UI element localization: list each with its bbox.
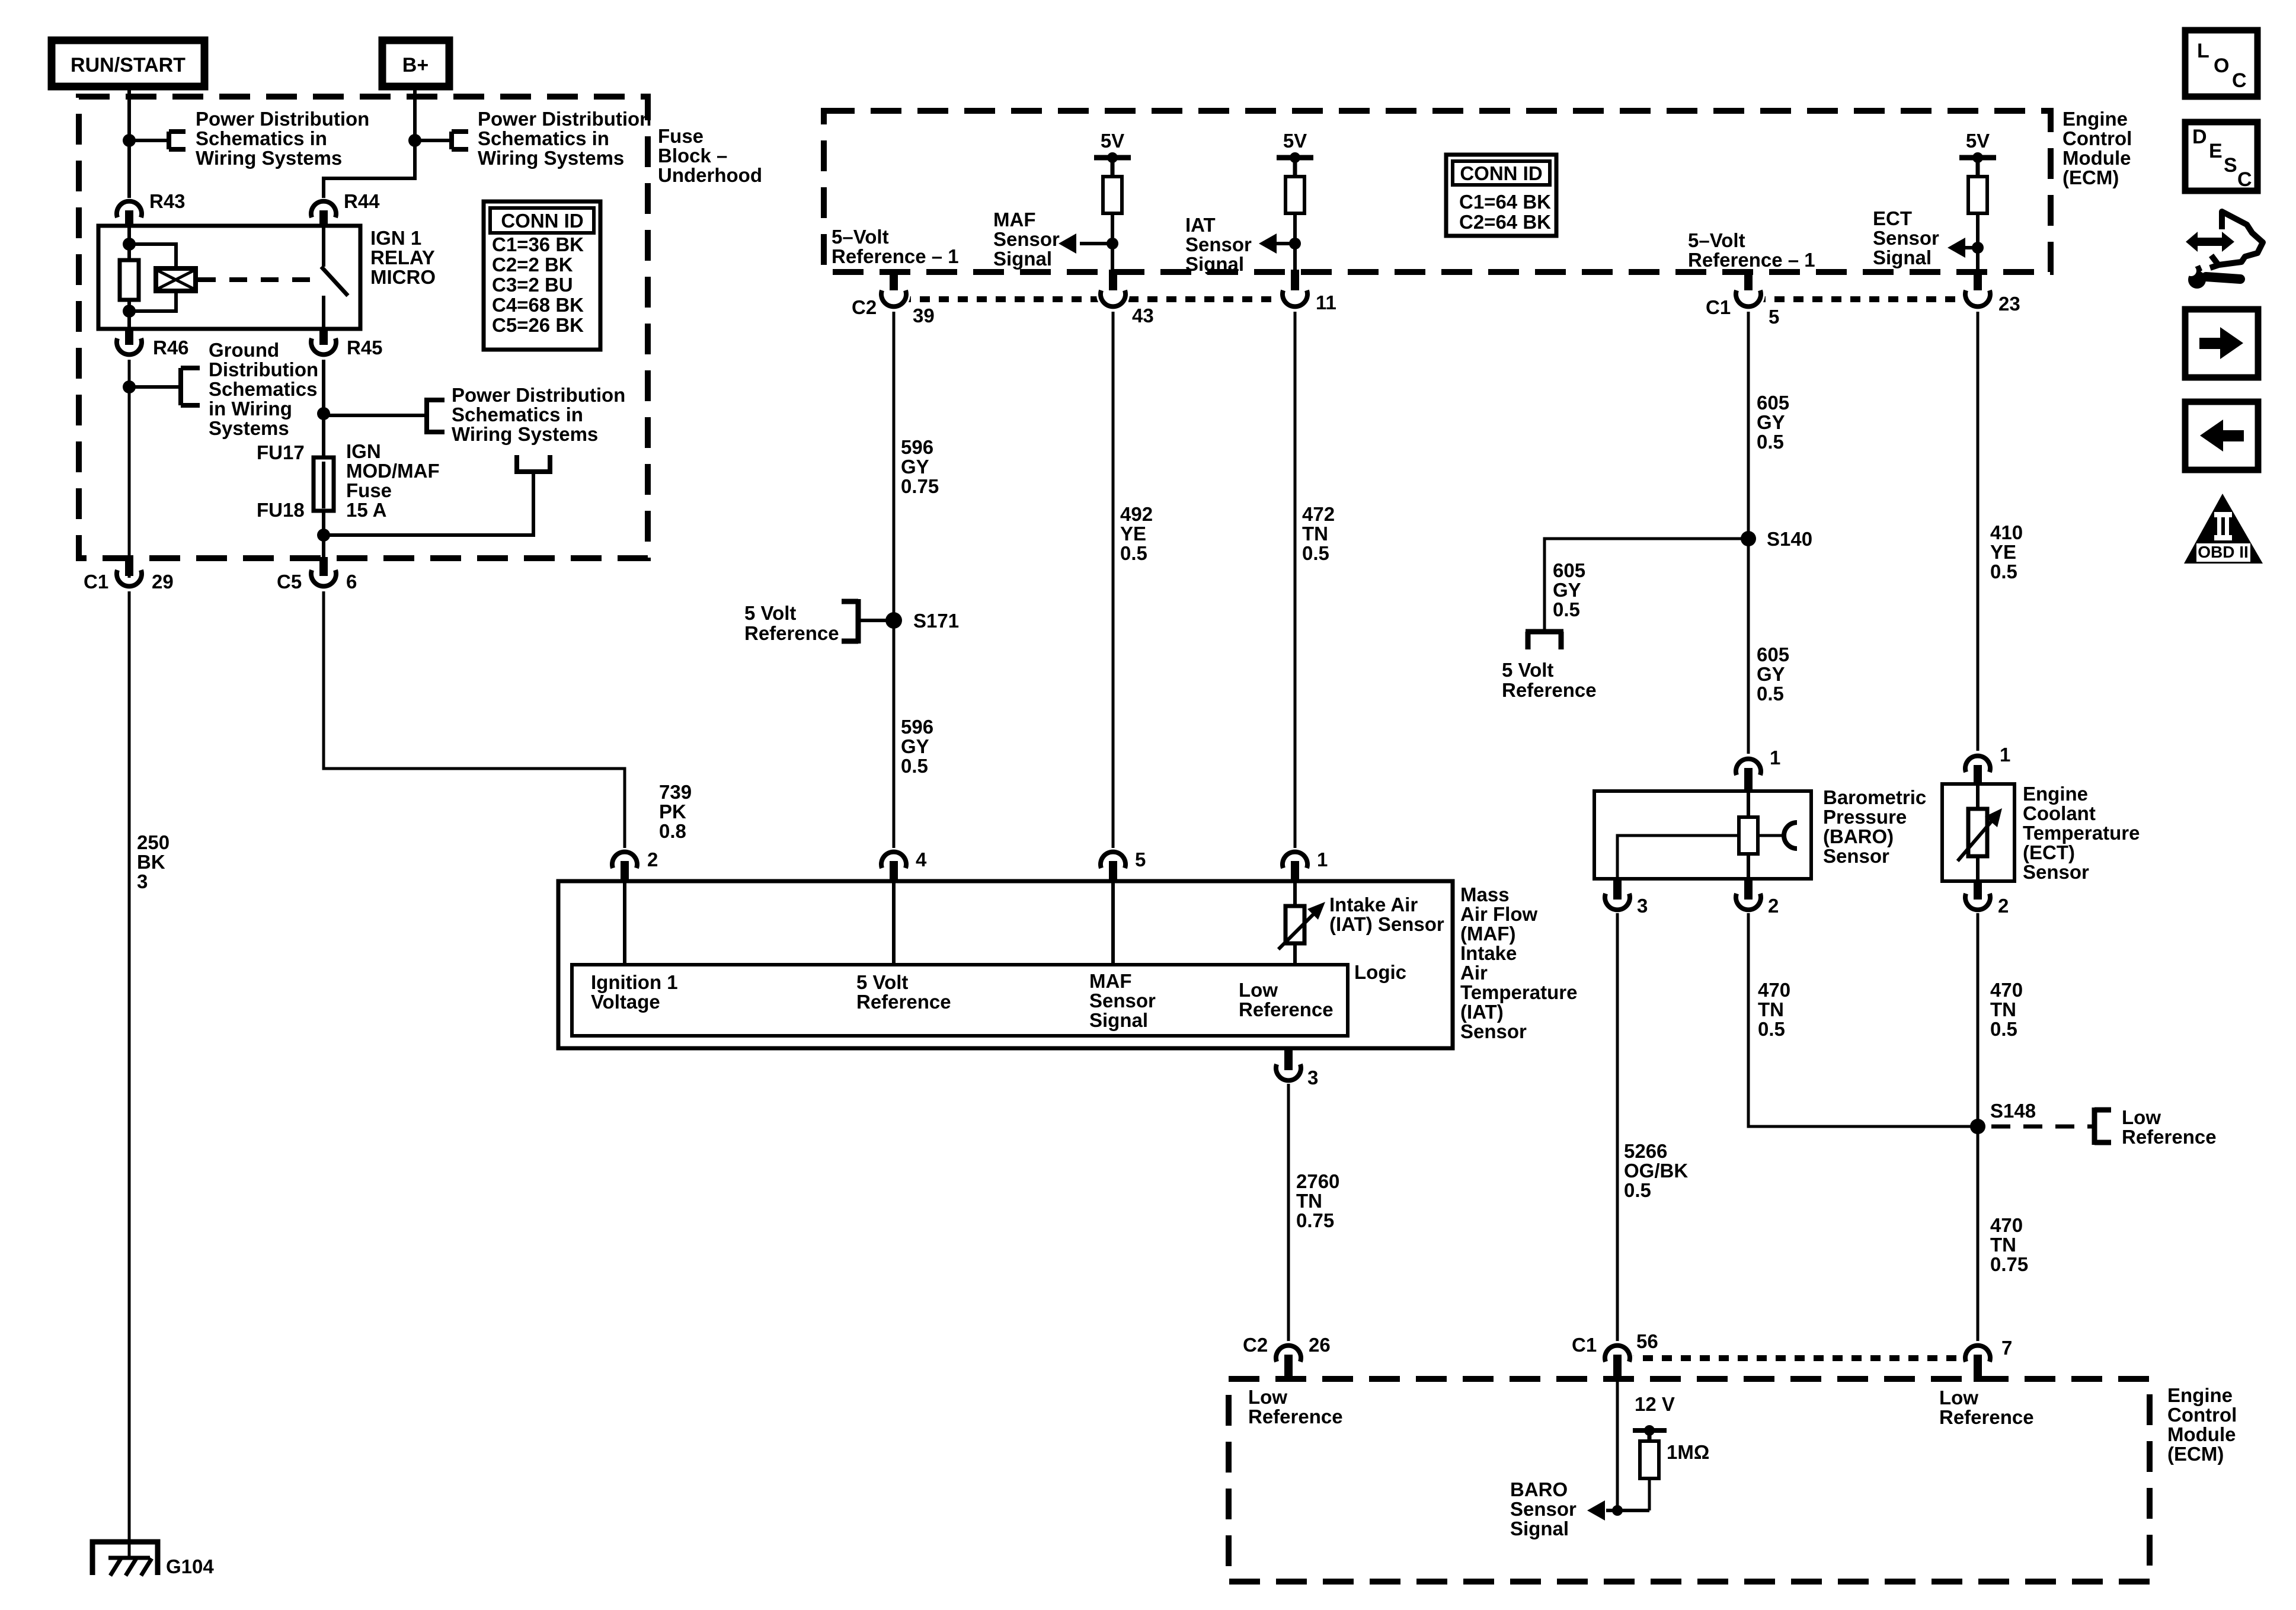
svg-text:43: 43 bbox=[1132, 305, 1154, 327]
svg-text:GY: GY bbox=[901, 735, 929, 757]
svg-text:Block –: Block – bbox=[658, 145, 727, 167]
svg-text:G104: G104 bbox=[166, 1555, 214, 1577]
wire 470 TN 0.5 ECT pin 2 to S148 bbox=[1978, 913, 2023, 1126]
svg-text:BK: BK bbox=[137, 851, 165, 873]
svg-text:(BARO): (BARO) bbox=[1823, 825, 1894, 847]
svg-text:C2: C2 bbox=[1243, 1334, 1268, 1356]
svg-text:Control: Control bbox=[2062, 127, 2132, 149]
svg-text:0.5: 0.5 bbox=[1120, 542, 1147, 564]
svg-text:MOD/MAF: MOD/MAF bbox=[346, 460, 440, 482]
node junction BARO signal bbox=[1612, 1505, 1623, 1516]
node splice S171 bbox=[885, 610, 959, 632]
svg-text:C5: C5 bbox=[277, 571, 302, 593]
svg-text:Coolant: Coolant bbox=[2023, 802, 2096, 824]
svg-text:1: 1 bbox=[1770, 747, 1780, 769]
svg-text:Ignition 1: Ignition 1 bbox=[591, 971, 678, 993]
relay coil resistor bbox=[120, 226, 139, 329]
icon OBD II bbox=[2184, 494, 2263, 564]
node relay coil bottom bbox=[123, 305, 136, 318]
svg-text:7: 7 bbox=[2001, 1337, 2012, 1359]
svg-text:S148: S148 bbox=[1990, 1100, 2036, 1122]
resistor BARO internal bbox=[1739, 793, 1758, 879]
wire pin5 into logic box bbox=[1111, 883, 1115, 965]
arrow IAT sensor signal bbox=[1259, 233, 1301, 254]
svg-text:5–Volt: 5–Volt bbox=[832, 226, 889, 248]
connector MAF pin 1 bbox=[1283, 849, 1328, 883]
connector MAF pin 4 bbox=[881, 849, 927, 883]
svg-text:S171: S171 bbox=[913, 610, 959, 632]
power symbol 5V ECT bbox=[1959, 130, 1996, 177]
wire to 5 volt reference bracket S171 bbox=[842, 599, 894, 644]
connector MAF pin 2 bbox=[612, 849, 658, 883]
svg-text:Power Distribution: Power Distribution bbox=[478, 108, 651, 130]
svg-text:1: 1 bbox=[1317, 849, 1328, 870]
svg-text:5V: 5V bbox=[1101, 130, 1124, 152]
power symbol 5V IAT bbox=[1277, 130, 1313, 177]
connector R45 bbox=[311, 329, 383, 359]
node relay coil top bbox=[123, 238, 136, 251]
svg-text:5: 5 bbox=[1135, 849, 1146, 870]
svg-text:5V: 5V bbox=[1283, 130, 1307, 152]
node junction B+ bbox=[408, 134, 421, 147]
svg-text:CONN ID: CONN ID bbox=[1460, 162, 1542, 184]
svg-text:12 V: 12 V bbox=[1635, 1393, 1675, 1415]
svg-text:Fuse: Fuse bbox=[658, 125, 703, 147]
svg-text:472: 472 bbox=[1302, 503, 1335, 525]
svg-text:Fuse: Fuse bbox=[346, 479, 392, 501]
svg-text:605: 605 bbox=[1757, 644, 1789, 665]
connector BARO pin 2 bbox=[1736, 879, 1779, 917]
svg-text:Ground: Ground bbox=[209, 339, 279, 361]
icon arrow right bbox=[2185, 309, 2258, 377]
svg-text:Logic: Logic bbox=[1354, 961, 1406, 983]
icon DESC bbox=[2185, 122, 2257, 191]
svg-text:Reference: Reference bbox=[856, 991, 951, 1013]
svg-text:OG/BK: OG/BK bbox=[1624, 1160, 1688, 1182]
svg-text:Mass: Mass bbox=[1460, 884, 1510, 905]
svg-text:MICRO: MICRO bbox=[370, 266, 436, 288]
svg-text:Engine: Engine bbox=[2023, 783, 2088, 805]
svg-text:0.5: 0.5 bbox=[1990, 1018, 2017, 1040]
svg-text:Pressure: Pressure bbox=[1823, 806, 1907, 828]
label 5 volt reference S171 bbox=[744, 602, 839, 644]
wire fuse output to bracket from power distribution bbox=[324, 455, 552, 535]
svg-text:470: 470 bbox=[1990, 979, 2023, 1001]
svg-text:ECT: ECT bbox=[1873, 207, 1912, 229]
relay switch bbox=[321, 226, 348, 329]
svg-text:5 Volt: 5 Volt bbox=[1502, 659, 1553, 681]
node junction R45 power distribution bbox=[317, 407, 330, 420]
connector C1-56 bbox=[1572, 1330, 1658, 1382]
svg-text:596: 596 bbox=[901, 716, 933, 738]
MAF logic box bbox=[572, 961, 1406, 1036]
terminal RUN/START bbox=[52, 40, 204, 87]
svg-text:3: 3 bbox=[1637, 895, 1648, 917]
svg-text:Schematics in: Schematics in bbox=[196, 127, 327, 149]
svg-text:RELAY: RELAY bbox=[370, 247, 435, 268]
wire R46 down to C1-29 bbox=[128, 360, 131, 578]
svg-text:Reference: Reference bbox=[1248, 1406, 1343, 1427]
svg-text:C5=26 BK: C5=26 BK bbox=[492, 314, 584, 336]
ground G104 bbox=[92, 1542, 214, 1577]
svg-text:OBD II: OBD II bbox=[2198, 543, 2249, 561]
label MAF Sensor Signal bbox=[993, 209, 1060, 270]
svg-text:15 A: 15 A bbox=[346, 499, 386, 521]
BARO pressure capsule symbol bbox=[1758, 822, 1797, 849]
svg-text:23: 23 bbox=[1998, 293, 2020, 315]
svg-text:Control: Control bbox=[2167, 1404, 2237, 1426]
svg-text:5 Volt: 5 Volt bbox=[744, 602, 796, 624]
table CONN ID fuse block bbox=[484, 201, 600, 350]
resistor 1M ohm bbox=[1640, 1441, 1709, 1510]
relay solenoid symbol bbox=[156, 268, 196, 291]
svg-text:R46: R46 bbox=[153, 337, 189, 359]
label Low Reference C2-26 bbox=[1248, 1386, 1343, 1427]
svg-text:Temperature: Temperature bbox=[2023, 822, 2140, 844]
thermistor ECT bbox=[1958, 786, 2002, 881]
svg-text:56: 56 bbox=[1636, 1330, 1658, 1352]
label Low Reference S148 bbox=[2122, 1106, 2217, 1148]
svg-text:5V: 5V bbox=[1966, 130, 1990, 152]
connector ECT pin 2 bbox=[1965, 881, 2009, 917]
dashed link S148 to low reference bracket bbox=[1991, 1108, 2111, 1145]
svg-text:Reference: Reference bbox=[2122, 1126, 2217, 1148]
connector 23 bbox=[1965, 270, 2020, 315]
svg-text:(MAF): (MAF) bbox=[1460, 923, 1515, 945]
svg-text:C1: C1 bbox=[1706, 296, 1731, 318]
svg-text:0.5: 0.5 bbox=[901, 755, 928, 777]
connector ECT pin 1 bbox=[1965, 744, 2010, 786]
svg-text:D: D bbox=[2192, 126, 2207, 148]
svg-text:Air: Air bbox=[1460, 962, 1488, 984]
svg-text:C: C bbox=[2232, 69, 2247, 92]
connector C1-5 bbox=[1706, 270, 1779, 328]
svg-text:Reference: Reference bbox=[1502, 679, 1597, 701]
wire 470 TN 0.75 S148 to connector 7 bbox=[1978, 1126, 2028, 1342]
svg-text:FU17: FU17 bbox=[257, 441, 305, 463]
svg-text:2: 2 bbox=[1998, 895, 2009, 917]
wire R45 down to fuse bbox=[322, 360, 325, 457]
svg-text:Engine: Engine bbox=[2167, 1384, 2233, 1406]
label Low Reference cell bbox=[1239, 979, 1334, 1020]
svg-text:S: S bbox=[2224, 154, 2237, 177]
svg-text:RUN/START: RUN/START bbox=[71, 54, 186, 76]
connector R43 bbox=[117, 190, 186, 226]
wire 605 GY 0.5 S140 to BARO pin 1 bbox=[1748, 539, 1789, 754]
svg-text:Reference – 1: Reference – 1 bbox=[1688, 249, 1815, 271]
MAF IAT sensor box bbox=[558, 881, 1453, 1048]
svg-text:3: 3 bbox=[137, 870, 148, 892]
arrow ECT sensor signal bbox=[1948, 238, 1984, 258]
connector R44 bbox=[311, 190, 380, 226]
connector C1-29 bbox=[84, 557, 174, 593]
svg-text:C1: C1 bbox=[84, 571, 108, 593]
svg-text:(ECM): (ECM) bbox=[2167, 1443, 2224, 1465]
label Engine Control Module bottom bbox=[2167, 1384, 2237, 1465]
svg-text:Reference: Reference bbox=[744, 622, 839, 644]
svg-text:Wiring Systems: Wiring Systems bbox=[196, 147, 342, 169]
label ground distribution bbox=[209, 339, 318, 439]
wire 492 YE 0.5 43 to MAF pin 5 bbox=[1113, 312, 1153, 848]
connector R46 bbox=[117, 329, 189, 359]
svg-text:IGN: IGN bbox=[346, 440, 381, 462]
svg-text:C1=64 BK: C1=64 BK bbox=[1459, 191, 1551, 213]
svg-text:Systems: Systems bbox=[209, 417, 289, 439]
svg-text:Signal: Signal bbox=[1089, 1009, 1148, 1031]
ECM top dashed boundary bbox=[824, 111, 2051, 272]
svg-text:in Wiring: in Wiring bbox=[209, 398, 292, 420]
label 5-Volt Reference - 1 left bbox=[832, 226, 959, 267]
svg-text:C3=2 BU: C3=2 BU bbox=[492, 274, 573, 296]
svg-text:GY: GY bbox=[1553, 579, 1581, 601]
node junction fuse output bbox=[317, 529, 330, 542]
svg-text:R43: R43 bbox=[149, 190, 186, 212]
svg-text:R44: R44 bbox=[344, 190, 380, 212]
svg-text:C1=36 BK: C1=36 BK bbox=[492, 233, 584, 255]
svg-text:O: O bbox=[2214, 55, 2229, 77]
wire branch S140 to 5 volt reference bracket bbox=[1526, 539, 1748, 649]
svg-text:Reference: Reference bbox=[1939, 1406, 2034, 1428]
svg-text:Sensor: Sensor bbox=[993, 228, 1060, 250]
power symbol 12 V bbox=[1633, 1393, 1675, 1441]
wire C1-56 to BARO sensor signal arrow bbox=[1587, 1382, 1649, 1521]
node splice S148 bbox=[1970, 1100, 2036, 1134]
resistor ECM ECT pullup bbox=[1968, 177, 1987, 272]
svg-text:5 Volt: 5 Volt bbox=[856, 971, 908, 993]
svg-text:0.75: 0.75 bbox=[1296, 1209, 1334, 1231]
label Low Reference connector 7 bbox=[1939, 1387, 2034, 1428]
table CONN ID ECM bbox=[1446, 155, 1556, 236]
svg-text:0.8: 0.8 bbox=[659, 820, 686, 842]
svg-text:E: E bbox=[2209, 140, 2223, 162]
svg-text:C1: C1 bbox=[1572, 1334, 1597, 1356]
svg-text:6: 6 bbox=[346, 571, 357, 593]
svg-text:MAF: MAF bbox=[993, 209, 1035, 231]
node splice S140 bbox=[1741, 528, 1812, 550]
label MAF Sensor Signal cell bbox=[1089, 970, 1156, 1031]
wire 410 YE 0.5 23 to ECT pin 1 bbox=[1978, 312, 2023, 751]
svg-text:470: 470 bbox=[1758, 979, 1790, 1001]
svg-text:FU18: FU18 bbox=[257, 499, 305, 521]
svg-text:Schematics in: Schematics in bbox=[452, 404, 583, 425]
svg-text:GY: GY bbox=[1757, 411, 1785, 433]
svg-text:IGN 1: IGN 1 bbox=[370, 227, 421, 249]
connector C2-26 bbox=[1243, 1334, 1331, 1382]
label 5-Volt Reference - 1 right bbox=[1688, 229, 1815, 271]
svg-text:Intake: Intake bbox=[1460, 942, 1517, 964]
fuse block dashed boundary bbox=[79, 97, 648, 558]
wire RUN/START to R43 bbox=[127, 87, 131, 198]
svg-text:(IAT): (IAT) bbox=[1460, 1001, 1504, 1023]
wire 5266 OG/BK 0.5 bbox=[1617, 913, 1688, 1342]
svg-text:Distribution: Distribution bbox=[209, 359, 318, 380]
svg-text:MAF: MAF bbox=[1089, 970, 1131, 992]
svg-text:BARO: BARO bbox=[1510, 1478, 1568, 1500]
wire connector row dotted line bottom bbox=[1624, 1355, 1980, 1361]
svg-text:Low: Low bbox=[2122, 1106, 2161, 1128]
ECM bottom dashed boundary bbox=[1229, 1379, 2150, 1582]
label power distribution 3 bbox=[452, 384, 625, 445]
svg-text:Wiring Systems: Wiring Systems bbox=[452, 423, 598, 445]
svg-text:Voltage: Voltage bbox=[591, 991, 660, 1013]
svg-text:CONN ID: CONN ID bbox=[501, 210, 583, 232]
svg-text:C2=64 BK: C2=64 BK bbox=[1459, 211, 1551, 233]
label ECT Sensor Signal bbox=[1873, 207, 1939, 268]
svg-text:(ECT): (ECT) bbox=[2023, 841, 2075, 863]
svg-text:Signal: Signal bbox=[1873, 247, 1932, 268]
svg-text:1MΩ: 1MΩ bbox=[1667, 1441, 1709, 1463]
svg-text:5–Volt: 5–Volt bbox=[1688, 229, 1745, 251]
svg-text:(ECM): (ECM) bbox=[2062, 167, 2119, 188]
label BARO Sensor Signal bbox=[1510, 1478, 1576, 1539]
svg-text:Low: Low bbox=[1239, 979, 1278, 1001]
svg-text:TN: TN bbox=[1296, 1190, 1322, 1212]
svg-text:Signal: Signal bbox=[1185, 253, 1244, 275]
svg-text:GY: GY bbox=[901, 456, 929, 478]
svg-text:Wiring Systems: Wiring Systems bbox=[478, 147, 624, 169]
wire 596 GY 0.75 C2-39 to S171 bbox=[894, 312, 939, 620]
connector BARO pin 3 bbox=[1605, 879, 1648, 917]
svg-text:Schematics: Schematics bbox=[209, 378, 317, 400]
connector C5-6 bbox=[277, 557, 357, 593]
svg-text:Engine: Engine bbox=[2062, 108, 2128, 130]
svg-text:Schematics in: Schematics in bbox=[478, 127, 609, 149]
svg-text:Sensor: Sensor bbox=[1185, 233, 1252, 255]
wire to power distribution bracket 3 bbox=[324, 398, 445, 434]
svg-text:2: 2 bbox=[647, 849, 658, 870]
connector MAF pin 3 bbox=[1276, 1048, 1318, 1089]
svg-text:Sensor: Sensor bbox=[2023, 861, 2089, 883]
svg-text:0.5: 0.5 bbox=[1990, 561, 2017, 582]
svg-text:492: 492 bbox=[1120, 503, 1153, 525]
svg-text:Sensor: Sensor bbox=[1823, 845, 1889, 867]
wire to ground distribution bracket bbox=[129, 368, 200, 405]
icon arrow left bbox=[2185, 402, 2258, 470]
BARO internal pin3 trace bbox=[1617, 836, 1739, 879]
node junction ground distribution bbox=[123, 380, 136, 393]
label power distribution 1 bbox=[196, 108, 369, 169]
node junction run/start bbox=[123, 134, 136, 147]
svg-text:TN: TN bbox=[1990, 1234, 2016, 1256]
wire 470 TN 0.5 BARO pin 2 to S148 bbox=[1748, 913, 1978, 1126]
wire pin4 into logic box bbox=[892, 883, 896, 965]
power symbol 5V MAF bbox=[1094, 130, 1131, 177]
label Mass Air Flow IAT sensor bbox=[1460, 884, 1577, 1042]
svg-text:Reference: Reference bbox=[1239, 998, 1334, 1020]
terminal B+ bbox=[382, 40, 449, 87]
svg-text:IAT: IAT bbox=[1185, 214, 1216, 236]
svg-text:250: 250 bbox=[137, 831, 170, 853]
svg-text:3: 3 bbox=[1307, 1067, 1318, 1089]
wire 596 GY 0.5 S171 to MAF pin 4 bbox=[894, 620, 933, 848]
ECT sensor box bbox=[1942, 783, 2140, 883]
label power distribution 2 bbox=[478, 108, 651, 169]
connector 11 bbox=[1283, 270, 1336, 313]
svg-text:C: C bbox=[2237, 168, 2252, 191]
svg-text:PK: PK bbox=[659, 801, 686, 822]
svg-text:Sensor: Sensor bbox=[1510, 1498, 1576, 1520]
svg-text:Reference – 1: Reference – 1 bbox=[832, 245, 959, 267]
svg-text:4: 4 bbox=[916, 849, 927, 870]
icon wrench and arrows bbox=[2182, 212, 2263, 289]
wire 472 TN 0.5 11 to MAF pin 1 bbox=[1295, 312, 1335, 848]
wire to power distribution bracket 1 bbox=[129, 132, 186, 149]
connector 7 bbox=[1965, 1337, 2012, 1382]
wire pin2 into logic box bbox=[623, 883, 626, 965]
connector BARO pin 1 bbox=[1736, 747, 1780, 793]
svg-text:0.75: 0.75 bbox=[1990, 1253, 2028, 1275]
icon LOC bbox=[2185, 30, 2257, 97]
fuse FU17 FU18 IGN MOD/MAF 15A bbox=[257, 440, 440, 521]
svg-text:Signal: Signal bbox=[1510, 1518, 1569, 1539]
BARO sensor box bbox=[1594, 786, 1926, 879]
svg-text:470: 470 bbox=[1990, 1214, 2023, 1236]
svg-text:Barometric: Barometric bbox=[1823, 786, 1926, 808]
svg-text:0.75: 0.75 bbox=[901, 475, 939, 497]
label Intake Air IAT Sensor bbox=[1329, 894, 1444, 935]
relay actuation dashed link bbox=[198, 277, 315, 282]
svg-text:Sensor: Sensor bbox=[1089, 990, 1156, 1012]
svg-text:0.5: 0.5 bbox=[1757, 683, 1784, 705]
svg-text:C2: C2 bbox=[852, 296, 877, 318]
label 5 volt reference S140 branch bbox=[1502, 659, 1597, 701]
svg-text:GY: GY bbox=[1757, 663, 1785, 685]
svg-text:C2=2 BK: C2=2 BK bbox=[492, 254, 573, 276]
svg-text:605: 605 bbox=[1553, 559, 1585, 581]
svg-text:Low: Low bbox=[1939, 1387, 1978, 1409]
svg-text:0.5: 0.5 bbox=[1758, 1018, 1785, 1040]
svg-text:S140: S140 bbox=[1767, 528, 1812, 550]
wire 739 PK 0.8 C5-6 to MAF pin 2 bbox=[324, 591, 692, 848]
connector 43 bbox=[1101, 270, 1154, 327]
wire 250 BK 3 to ground bbox=[129, 591, 170, 1559]
svg-text:0.5: 0.5 bbox=[1624, 1179, 1651, 1201]
svg-text:TN: TN bbox=[1990, 998, 2016, 1020]
svg-text:605: 605 bbox=[1757, 392, 1789, 414]
svg-text:0.5: 0.5 bbox=[1553, 598, 1580, 620]
svg-text:Sensor: Sensor bbox=[1460, 1020, 1527, 1042]
svg-text:2: 2 bbox=[1768, 895, 1779, 917]
label IAT Sensor Signal bbox=[1185, 214, 1252, 275]
svg-text:TN: TN bbox=[1302, 523, 1328, 545]
wire fuse to C5-6 bbox=[322, 511, 325, 576]
svg-text:Low: Low bbox=[1248, 1386, 1287, 1408]
svg-text:L: L bbox=[2197, 40, 2209, 62]
svg-text:26: 26 bbox=[1309, 1334, 1331, 1356]
svg-text:Air Flow: Air Flow bbox=[1460, 903, 1537, 925]
label Ignition 1 Voltage bbox=[591, 971, 678, 1013]
resistor ECM MAF pullup bbox=[1103, 177, 1122, 272]
wire to power distribution bracket 2 bbox=[415, 132, 468, 149]
svg-text:R45: R45 bbox=[347, 337, 383, 359]
svg-text:29: 29 bbox=[152, 571, 174, 593]
svg-text:2760: 2760 bbox=[1296, 1170, 1339, 1192]
wire connector row dotted line right bbox=[1755, 296, 1980, 302]
wire 605 GY 0.5 C1-5 to S140 bbox=[1748, 312, 1789, 539]
resistor ECM IAT pullup bbox=[1285, 177, 1304, 272]
svg-text:1: 1 bbox=[2000, 744, 2010, 766]
svg-text:Module: Module bbox=[2062, 147, 2131, 169]
svg-text:Intake Air: Intake Air bbox=[1329, 894, 1418, 916]
svg-text:YE: YE bbox=[1120, 523, 1146, 545]
svg-text:Sensor: Sensor bbox=[1873, 227, 1939, 249]
svg-text:YE: YE bbox=[1990, 541, 2016, 563]
wire B+ to R44 bbox=[324, 87, 415, 198]
svg-text:410: 410 bbox=[1990, 521, 2023, 543]
svg-text:739: 739 bbox=[659, 781, 692, 803]
svg-text:0.5: 0.5 bbox=[1757, 431, 1784, 453]
wire coil to solenoid bbox=[129, 244, 176, 311]
